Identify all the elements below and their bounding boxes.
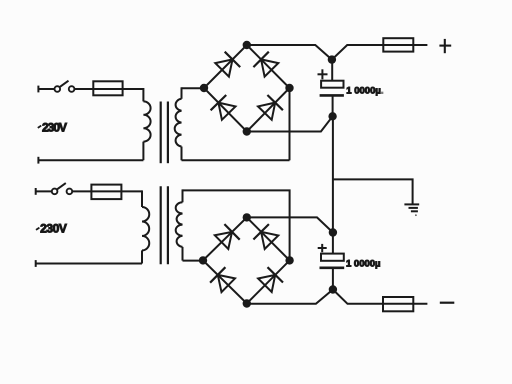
label ~230V (bottom)	[36, 222, 67, 236]
node BR2 top (+/ground side)	[244, 214, 251, 221]
node BR2 left (AC)	[200, 257, 207, 264]
wire fuse F1 to transformer T1 primary	[123, 88, 144, 90]
switch S2 (bottom mains switch)	[52, 183, 72, 194]
node A2 (cap C2 + junction, ground bus)	[330, 229, 337, 236]
wire center bus node B1cap to node A2	[332, 116, 334, 232]
+ output terminal symbol	[439, 39, 451, 53]
wire switch to fuse F1	[74, 88, 93, 90]
node BR1 bottom (-)	[244, 128, 251, 135]
diode D3 (BR1 bottom-left)	[211, 95, 236, 120]
T1 primary coil (3 turns)	[143, 101, 150, 141]
capacitor C2 (10000u)	[320, 233, 345, 290]
wire switch S2 to fuse F4	[72, 190, 91, 192]
wire T2 secondary bottom to bridge B2 left node	[183, 260, 204, 262]
wire T1 secondary bottom	[182, 159, 290, 161]
wire: AC input L1 bottom lead with terminal tick	[38, 159, 143, 161]
wire BR2 - output through node B2cap peak to fuse F3	[247, 290, 428, 304]
fuse F2 (+ output fuse)	[383, 38, 413, 51]
svg-text:1 0000µ.: 1 0000µ.	[346, 85, 383, 96]
bridge rectifier BR2 edges	[203, 217, 290, 303]
wire T2 secondary top across to bridge B2 right node	[183, 190, 290, 260]
diode D5 (BR2 left-top)	[215, 224, 240, 249]
fuse F4 (bottom primary fuse)	[91, 185, 121, 200]
wire ground branch	[333, 179, 413, 204]
wire up to bridge B1 right node	[289, 88, 291, 160]
node A1 (cap C1 + junction)	[329, 56, 336, 63]
diode D8 (BR2 bottom-right)	[258, 267, 283, 292]
wire T1 secondary top to bridge B1 left node	[182, 87, 205, 89]
wire: AC input L1 top lead with terminal tick	[37, 86, 39, 93]
ground symbol	[404, 204, 419, 216]
wire BR2 top to node A2	[247, 217, 333, 232]
fuse F1 (top primary fuse)	[93, 81, 122, 95]
transformer T2 core	[161, 186, 168, 264]
- output terminal symbol	[440, 302, 455, 304]
node BR2 right (AC)	[286, 257, 293, 264]
wire: AC input L2 top lead with terminal tick	[35, 188, 37, 195]
node B1cap (C1 - junction)	[329, 113, 336, 120]
diode D7 (BR2 bottom-left)	[210, 267, 235, 292]
fuse F3 (- output fuse)	[383, 297, 413, 311]
node BR1 left (AC)	[201, 85, 208, 92]
switch S1 (top mains switch)	[55, 81, 75, 92]
wire fuse F4 to transformer T2 primary	[121, 190, 142, 192]
node B2cap (C2 - junction)	[330, 286, 337, 293]
C1 polarity +	[318, 69, 328, 79]
diode D4 (BR1 bottom-right)	[258, 95, 283, 120]
node BR1 right (AC)	[286, 85, 293, 92]
label ~230V (top)	[38, 120, 67, 134]
bridge rectifier BR1 edges	[204, 45, 290, 132]
T1 secondary coil (4 turns)	[175, 99, 182, 147]
wire BR1 - to node B1cap	[247, 116, 333, 131]
T2 primary coil (3 turns)	[142, 207, 149, 250]
svg-text:230V: 230V	[40, 222, 67, 236]
transformer T1 primary winding	[142, 88, 144, 101]
svg-text:1 0000µ: 1 0000µ	[346, 258, 381, 269]
diode D2 (BR1 right-top)	[253, 52, 278, 77]
node BR2 bottom (-)	[244, 300, 251, 307]
diode D1 (BR1 left-top)	[215, 52, 240, 77]
svg-text:230V: 230V	[42, 120, 67, 134]
wire: AC input L2 bottom lead with terminal tick	[36, 263, 142, 265]
transformer T1 secondary winding	[181, 87, 183, 99]
diode D6 (BR2 right-top)	[253, 224, 278, 249]
capacitor C1 (10000u)	[320, 60, 344, 117]
node BR1 top (+)	[244, 42, 251, 49]
transformer T1 core	[161, 102, 168, 164]
wire BR1 + output to node A1 (dip) and on to fuse F2	[247, 45, 428, 60]
C2 polarity +	[318, 244, 327, 252]
T2 secondary coil (4 turns)	[176, 202, 183, 247]
transformer T2 primary winding	[141, 190, 143, 207]
transformer T2 secondary winding	[182, 189, 184, 202]
